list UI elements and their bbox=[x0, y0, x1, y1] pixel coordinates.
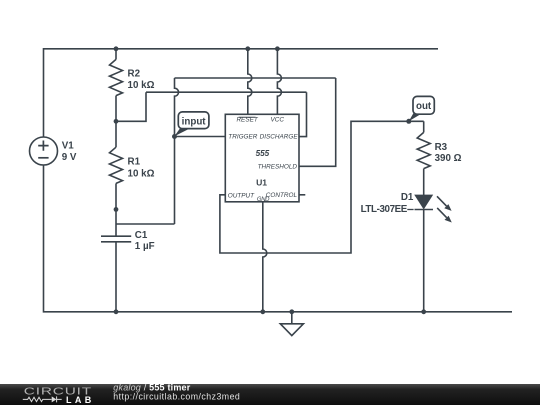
svg-text:out: out bbox=[416, 101, 432, 112]
svg-text:C1: C1 bbox=[135, 230, 148, 241]
svg-text:R1: R1 bbox=[128, 156, 141, 167]
svg-text:VCC: VCC bbox=[270, 117, 284, 124]
svg-text:V1: V1 bbox=[62, 141, 75, 152]
svg-text:OUTPUT: OUTPUT bbox=[228, 193, 255, 200]
svg-text:U1: U1 bbox=[256, 177, 267, 187]
svg-text:DISCHARGE: DISCHARGE bbox=[260, 134, 299, 141]
svg-text:LAB: LAB bbox=[66, 395, 95, 405]
svg-text:http://circuitlab.com/chz3med: http://circuitlab.com/chz3med bbox=[113, 392, 240, 402]
svg-text:1 µF: 1 µF bbox=[135, 241, 155, 252]
svg-text:9 V: 9 V bbox=[62, 152, 77, 163]
svg-text:CONTROL: CONTROL bbox=[266, 192, 298, 199]
svg-text:R2: R2 bbox=[128, 68, 141, 79]
svg-text:10 kΩ: 10 kΩ bbox=[128, 80, 155, 91]
svg-text:R3: R3 bbox=[435, 142, 448, 153]
svg-text:TRIGGER: TRIGGER bbox=[228, 134, 257, 141]
svg-text:555: 555 bbox=[256, 149, 270, 158]
svg-text:RESET: RESET bbox=[236, 117, 258, 124]
svg-text:390 Ω: 390 Ω bbox=[435, 153, 462, 164]
svg-text:D1: D1 bbox=[401, 192, 414, 203]
svg-text:input: input bbox=[182, 116, 207, 127]
svg-text:GND: GND bbox=[257, 197, 270, 203]
svg-text:LTL-307EE: LTL-307EE bbox=[361, 204, 408, 215]
svg-text:10 kΩ: 10 kΩ bbox=[128, 168, 155, 179]
svg-text:THRESHOLD: THRESHOLD bbox=[258, 163, 298, 170]
